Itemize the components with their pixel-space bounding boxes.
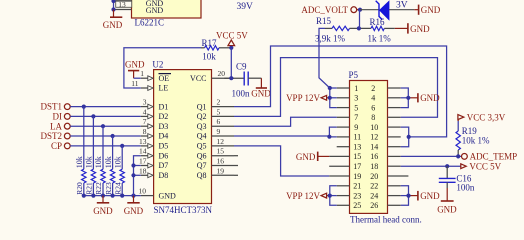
IC L6221C (partial, top left) — [132, 0, 202, 18]
wire OE pin1 to ground — [134, 77, 141, 79]
svg-text:VPP 12V: VPP 12V — [286, 93, 320, 103]
svg-text:D4: D4 — [159, 132, 169, 141]
svg-text:DI: DI — [53, 112, 63, 122]
svg-text:GND: GND — [93, 206, 113, 216]
svg-text:10: 10 — [370, 123, 378, 132]
svg-text:20: 20 — [218, 69, 226, 78]
svg-text:Q2: Q2 — [197, 112, 207, 121]
svg-text:R20: R20 — [75, 182, 84, 195]
svg-text:OE: OE — [159, 74, 170, 83]
svg-text:VCC 3,3V: VCC 3,3V — [467, 112, 506, 122]
U2 right pin numbers — [217, 69, 226, 175]
svg-text:10k: 10k — [113, 156, 122, 168]
svg-text:3V: 3V — [396, 0, 408, 10]
junction dots on ground bus — [82, 194, 136, 198]
junction dots on signal rows (pull-down taps) — [82, 105, 125, 148]
svg-text:ADC_VOLT: ADC_VOLT — [301, 5, 348, 15]
svg-text:25: 25 — [353, 201, 361, 210]
svg-text:D5: D5 — [159, 142, 169, 151]
wire LA to D3 — [70, 125, 141, 127]
svg-text:3,9k 1%: 3,9k 1% — [315, 33, 346, 43]
wire net Q3 (U2 pin6 to P5 pin 7) — [234, 117, 337, 126]
svg-text:Thermal head conn.: Thermal head conn. — [350, 215, 422, 225]
wire net Q4 (U2 pin9 to P5 pins 9,11) — [234, 127, 337, 137]
svg-text:U2: U2 — [152, 60, 163, 70]
svg-text:16: 16 — [217, 157, 225, 166]
svg-text:100n: 100n — [232, 88, 251, 98]
svg-text:19: 19 — [217, 166, 225, 175]
junction dot P5 pin 12 — [407, 135, 411, 139]
U2 left pin numbers — [131, 69, 146, 195]
ground (U2 OE pin 1) — [125, 60, 145, 79]
svg-text:17: 17 — [139, 157, 147, 166]
svg-text:R15: R15 — [316, 16, 332, 26]
wire DST2 to D4 — [70, 135, 141, 137]
svg-text:10k: 10k — [85, 156, 94, 168]
junction dot P5 pin 4 — [406, 96, 410, 100]
svg-text:22: 22 — [370, 182, 378, 191]
ground (L6221C pins) — [103, 10, 123, 31]
svg-text:VCC: VCC — [190, 74, 206, 83]
wire net LE (pin 11 up and to pull-up R17) — [124, 48, 201, 88]
P5 left column pin numbers — [353, 84, 361, 210]
svg-text:4: 4 — [143, 107, 147, 116]
wire P5 pin16 to ADC_TEMP — [401, 155, 462, 157]
resistor R20 10k (pull-down DST1) — [75, 107, 86, 196]
resistor R21 10k (pull-down DI) — [85, 116, 96, 195]
wire zener anode to ground — [389, 9, 414, 11]
svg-text:39V: 39V — [237, 2, 254, 12]
svg-text:7: 7 — [354, 113, 358, 122]
svg-text:Q8: Q8 — [197, 171, 207, 180]
port DI — [53, 112, 71, 122]
svg-text:Q5: Q5 — [197, 142, 207, 151]
power VCC 3,3V — [458, 112, 506, 122]
power VCC 5V (right) — [461, 161, 502, 171]
junction dot R15/R16 divider — [357, 26, 361, 30]
power VPP 12V (P5 pins 1,3,5) — [286, 88, 337, 108]
svg-text:16: 16 — [370, 152, 378, 161]
junction dot VCC node — [229, 46, 233, 50]
zener diode D (3V) — [376, 1, 389, 20]
svg-text:VCC 5V: VCC 5V — [469, 161, 501, 171]
svg-text:D1: D1 — [159, 102, 169, 111]
pin 13 stub — [114, 9, 132, 11]
svg-text:GND: GND — [296, 152, 316, 162]
svg-text:Q3: Q3 — [197, 122, 207, 131]
ground (R16) — [395, 23, 430, 34]
svg-text:10k: 10k — [75, 156, 84, 168]
resistor R24 10k (pull-down CP) — [113, 146, 124, 196]
pin 13 number with box — [116, 0, 132, 9]
svg-text:GND: GND — [125, 60, 145, 70]
svg-text:GND: GND — [421, 5, 441, 15]
svg-text:1k 1%: 1k 1% — [368, 33, 392, 43]
svg-text:5: 5 — [354, 103, 358, 112]
svg-text:GND: GND — [146, 6, 164, 15]
svg-text:CP: CP — [51, 141, 62, 151]
U2 left pin stubs with input arrows — [141, 76, 154, 196]
svg-text:2: 2 — [371, 84, 375, 93]
svg-text:14: 14 — [139, 147, 147, 156]
wire VCC down to U2 pin 20 — [230, 48, 232, 78]
svg-text:1: 1 — [140, 69, 144, 78]
svg-text:3: 3 — [143, 98, 147, 107]
op IC U2 SN74HCT373N body — [154, 70, 212, 204]
svg-text:10k: 10k — [94, 156, 103, 168]
svg-text:VCC 5V: VCC 5V — [216, 30, 248, 40]
svg-text:8: 8 — [143, 127, 147, 136]
capacitor C16 — [439, 166, 456, 188]
svg-text:VPP 12V: VPP 12V — [286, 191, 320, 201]
svg-text:4: 4 — [371, 94, 375, 103]
svg-text:1: 1 — [354, 84, 358, 93]
junction dot VPP bottom bar — [328, 194, 332, 198]
svg-text:12: 12 — [217, 137, 225, 146]
ground (C16) — [437, 188, 457, 215]
ground (P5 pin 15) — [296, 152, 329, 162]
svg-text:DST1: DST1 — [40, 102, 62, 112]
resistor R16 — [371, 26, 395, 30]
wire DST1 to D1 — [70, 106, 141, 108]
svg-text:13: 13 — [353, 143, 361, 152]
junction dots VPP top bar — [328, 86, 332, 100]
svg-text:R21: R21 — [85, 182, 94, 195]
svg-text:6: 6 — [371, 103, 375, 112]
svg-text:LA: LA — [50, 121, 62, 131]
svg-text:Q6: Q6 — [197, 151, 207, 160]
pin stub (upper, cut) — [114, 0, 132, 2]
svg-text:15: 15 — [217, 147, 225, 156]
power VPP 12V (P5 pins 21,23,25) — [286, 186, 337, 206]
svg-text:R24: R24 — [113, 182, 122, 195]
svg-text:7: 7 — [143, 117, 147, 126]
wire pin20 to C9 — [224, 77, 244, 79]
svg-text:SN74HCT373N: SN74HCT373N — [154, 205, 213, 215]
svg-text:GND: GND — [103, 20, 123, 30]
ground (P5 pins 22,24,26) — [401, 186, 440, 206]
junction dot — [111, 0, 115, 3]
U2 right pin stubs — [212, 78, 235, 175]
svg-text:DST2: DST2 — [40, 131, 62, 141]
P5 right column pin numbers — [370, 84, 378, 210]
ground (resistor network) — [93, 196, 113, 216]
svg-text:18: 18 — [370, 162, 378, 171]
svg-text:11: 11 — [353, 133, 361, 142]
wire bar tying D6,D7,D8 to ground bus — [134, 156, 141, 196]
svg-text:23: 23 — [353, 191, 361, 200]
P5 right pin stubs — [388, 88, 409, 205]
svg-text:24: 24 — [370, 191, 378, 200]
wire ground bus under resistors to U2 pin 10 — [84, 195, 141, 197]
svg-text:LE: LE — [159, 84, 169, 93]
svg-text:GND: GND — [251, 88, 271, 98]
resistor R15 — [325, 26, 371, 30]
ground (C9) — [251, 78, 271, 98]
svg-text:C9: C9 — [236, 61, 247, 71]
svg-text:9: 9 — [354, 123, 358, 132]
P5 left pin stubs — [329, 88, 349, 205]
ground (zener) — [414, 5, 440, 16]
svg-text:R19: R19 — [462, 126, 478, 136]
svg-text:R23: R23 — [104, 182, 113, 195]
junction dot pin 20 — [229, 76, 233, 80]
port CP — [51, 141, 70, 151]
wire ADC_VOLT to zener — [360, 9, 379, 11]
connector P5 body — [350, 81, 388, 214]
svg-text:L6221C: L6221C — [135, 18, 165, 28]
svg-text:10k 1%: 10k 1% — [462, 136, 490, 146]
svg-text:100n: 100n — [456, 183, 475, 193]
node ADC_VOLT port — [301, 5, 360, 15]
ground (U2 pin 10 / D6-D8) — [124, 196, 144, 216]
U2 pin names D1-D8 — [159, 102, 169, 180]
power VCC 5V (top) — [216, 30, 248, 48]
wire stubs Q6 Q7 Q8 (unconnected) — [234, 156, 238, 176]
wire net Q1 (U2 pin2 to P5 pins 10,12,14) — [234, 46, 447, 147]
svg-text:17: 17 — [353, 162, 361, 171]
wire P5 pin18 to VCC 5V — [401, 165, 461, 167]
svg-text:13: 13 — [139, 137, 147, 146]
svg-text:10k: 10k — [202, 51, 216, 61]
svg-text:5: 5 — [217, 107, 221, 116]
svg-text:6: 6 — [217, 117, 221, 126]
svg-text:ADC_TEMP: ADC_TEMP — [470, 152, 518, 162]
wire DI to D2 — [70, 115, 141, 117]
svg-text:20: 20 — [370, 172, 378, 181]
svg-text:D2: D2 — [159, 112, 169, 121]
resistor R17 — [201, 46, 231, 50]
junction dot — [111, 7, 115, 11]
svg-text:Q7: Q7 — [197, 161, 207, 170]
svg-text:P5: P5 — [349, 70, 359, 80]
svg-text:D8: D8 — [159, 171, 169, 180]
resistor R22 10k (pull-down LA) — [94, 126, 105, 195]
svg-text:GND: GND — [420, 191, 440, 201]
port DST1 — [40, 102, 70, 112]
resistor R19 — [456, 121, 460, 156]
resistor R23 10k (pull-down DST2) — [104, 136, 115, 196]
svg-text:GND: GND — [437, 205, 457, 215]
junction dots D7 D8 ties — [131, 163, 135, 177]
svg-text:10k: 10k — [104, 156, 113, 168]
svg-text:10: 10 — [139, 187, 147, 196]
wire joining L6221C pins — [113, 1, 115, 10]
junction dot VCC 5V node — [445, 164, 449, 168]
node ADC_TEMP port — [462, 152, 518, 162]
svg-text:D6: D6 — [159, 151, 169, 160]
svg-text:R22: R22 — [94, 182, 103, 195]
wire net Q5 (U2 pin12 to P5 pin 19) — [234, 146, 329, 176]
capacitor C9 — [244, 72, 261, 86]
U2 pin name OE (with overline) — [159, 74, 172, 83]
svg-text:R16: R16 — [370, 17, 386, 27]
svg-text:D7: D7 — [159, 161, 169, 170]
svg-text:Q1: Q1 — [197, 102, 207, 111]
svg-text:GND: GND — [124, 206, 144, 216]
svg-text:8: 8 — [371, 113, 375, 122]
junction dot ADC_VOLT node — [358, 8, 362, 12]
svg-text:12: 12 — [370, 133, 378, 142]
svg-text:GND: GND — [159, 191, 177, 200]
svg-text:3: 3 — [354, 94, 358, 103]
U2 pin names Q1-Q8 — [197, 102, 207, 180]
svg-text:15: 15 — [353, 152, 361, 161]
junction dot P5 pin 11 — [327, 135, 331, 139]
wire CP to D5 — [70, 145, 141, 147]
wire VPP to R15 (corner and diagonal to P5 pin1) — [319, 28, 330, 88]
svg-text:D3: D3 — [159, 122, 169, 131]
svg-text:14: 14 — [370, 143, 378, 152]
svg-text:GND: GND — [410, 24, 430, 34]
svg-text:9: 9 — [217, 127, 221, 136]
junction dot ADC_TEMP node — [456, 154, 460, 158]
svg-text:11: 11 — [131, 79, 138, 88]
svg-text:19: 19 — [353, 172, 361, 181]
svg-text:26: 26 — [370, 201, 378, 210]
svg-text:Q4: Q4 — [197, 132, 207, 141]
junction dot P5 pin 24 — [406, 194, 410, 198]
port DST2 — [40, 131, 70, 141]
svg-text:GND: GND — [420, 93, 440, 103]
wire divider tap up to ADC_VOLT — [359, 10, 361, 29]
wire net Q2 (U2 pin5 to P5 pin 8) — [234, 58, 438, 118]
svg-text:R17: R17 — [202, 38, 218, 48]
ground (P5 pins 2,4,6) — [401, 88, 440, 108]
svg-text:18: 18 — [139, 166, 147, 175]
svg-text:21: 21 — [353, 182, 361, 191]
port LA — [50, 121, 70, 131]
svg-text:2: 2 — [217, 98, 221, 107]
